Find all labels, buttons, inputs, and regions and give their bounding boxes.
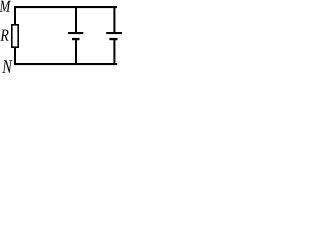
battery B2 positive plate xyxy=(106,32,122,34)
node M xyxy=(0,1,11,12)
wire bottom (N to battery branches) xyxy=(14,63,117,65)
node N xyxy=(2,60,12,72)
battery B2 negative plate xyxy=(109,38,117,40)
wire top (M to battery branches) xyxy=(14,6,117,8)
wire left lower (resistor to N) xyxy=(14,48,16,66)
wire battery B1 top lead xyxy=(75,7,77,32)
battery B1 negative plate xyxy=(72,38,80,40)
wire battery B2 bottom lead xyxy=(113,40,115,64)
wire battery B1 bottom lead xyxy=(75,40,77,64)
battery B1 positive plate xyxy=(68,32,83,34)
wire battery B2 top lead xyxy=(113,7,115,32)
label R xyxy=(0,30,8,41)
wire left upper (M to resistor) xyxy=(14,6,16,25)
resistor R xyxy=(12,25,18,47)
